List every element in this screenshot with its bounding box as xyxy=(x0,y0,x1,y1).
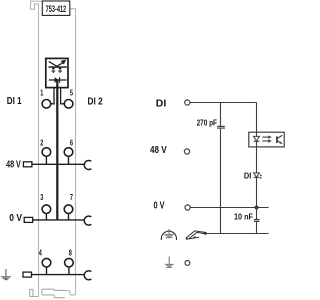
svg-text:4: 4 xyxy=(39,249,42,258)
48V terminal unconnected xyxy=(184,149,189,154)
earth symbol left xyxy=(1,269,11,280)
optocoupler light arrows xyxy=(262,137,268,141)
svg-text:DI 2: DI 2 xyxy=(88,96,104,107)
wire LED to 0V node xyxy=(256,177,258,207)
label box 753-412 xyxy=(42,1,70,15)
terminal 1 xyxy=(42,100,51,109)
module outline DIN-rail recess profile xyxy=(42,289,66,298)
filter branch wire lower xyxy=(220,129,222,234)
pin number 5 xyxy=(70,89,73,98)
DI input wire xyxy=(190,102,257,104)
svg-text:3: 3 xyxy=(40,193,43,202)
earth rail wire xyxy=(32,274,85,276)
svg-text:753-412: 753-412 xyxy=(46,4,67,15)
DI input terminal xyxy=(185,100,190,105)
label DI 1 xyxy=(7,96,22,107)
svg-text:5: 5 xyxy=(70,89,73,98)
svg-text:DI 1: DI 1 xyxy=(7,96,22,107)
wire 10nF to rail-earth line xyxy=(256,222,258,234)
capacitive earth arrow xyxy=(165,229,173,238)
label DI at LED xyxy=(244,170,251,180)
optocoupler LED xyxy=(254,132,260,147)
wire optocoupler to DI LED xyxy=(256,147,258,173)
functional earth arrow bottom xyxy=(166,257,173,268)
terminal 8 xyxy=(65,258,74,274)
filter branch wire upper xyxy=(220,103,222,127)
diode D1 inside box xyxy=(49,79,67,81)
svg-text:7: 7 xyxy=(70,193,73,202)
label 270 pF xyxy=(197,118,217,128)
48V jumper contact hook xyxy=(84,160,91,169)
0V jumper contact hook xyxy=(84,216,91,225)
svg-text:DI: DI xyxy=(244,170,251,180)
svg-text:DI: DI xyxy=(156,98,167,109)
status LED left (DI1) xyxy=(52,68,56,73)
0V field clamp square xyxy=(24,217,33,222)
label 48 V left xyxy=(6,160,21,171)
capacitor 270 pF xyxy=(217,126,225,128)
optocoupler input wire xyxy=(256,103,258,137)
module outline right edge xyxy=(66,9,76,295)
label 0 V left xyxy=(9,213,22,224)
capacitive earth symbol arc xyxy=(161,231,176,240)
0V rail wire xyxy=(33,219,85,221)
common return wire from box to 0V rail xyxy=(56,80,58,220)
label DI right top xyxy=(156,98,167,109)
label 10 nF xyxy=(234,212,253,222)
48V rail wire xyxy=(32,163,85,165)
svg-text:1: 1 xyxy=(40,89,43,98)
module outline left notch and left edge xyxy=(31,1,43,296)
terminal 7 xyxy=(64,205,73,220)
0V terminal xyxy=(185,205,190,210)
pin number 8 xyxy=(69,249,72,258)
svg-text:0 V: 0 V xyxy=(154,200,165,211)
optocoupler phototransistor xyxy=(277,135,282,143)
status LEDs inside box: anode rail xyxy=(48,66,67,68)
LED emission arrows small xyxy=(260,174,262,179)
pin number 2 xyxy=(40,138,43,147)
terminal 4 xyxy=(42,258,51,274)
module outline bottom-left foot tab xyxy=(30,289,39,296)
pin number 7 xyxy=(70,193,73,202)
terminal 2 xyxy=(42,148,51,165)
capacitor 10 nF xyxy=(254,220,260,222)
svg-text:270 pF: 270 pF xyxy=(197,118,217,128)
LED/diode function box U1 xyxy=(46,58,68,87)
pin number 3 xyxy=(40,193,43,202)
48V field clamp square xyxy=(23,162,32,167)
wire from box to terminal 1 xyxy=(51,88,54,104)
svg-text:0 V: 0 V xyxy=(9,213,22,224)
earth jumper contact hook xyxy=(84,271,91,280)
terminal 3 xyxy=(42,205,51,220)
0V wire xyxy=(190,207,268,209)
svg-text:2: 2 xyxy=(40,138,43,147)
pin number 1 xyxy=(40,89,43,98)
label 48 V right xyxy=(150,145,167,156)
svg-text:8: 8 xyxy=(69,249,72,258)
DIN rail symbol xyxy=(186,231,206,239)
junction node xyxy=(255,206,259,210)
label DI 2 xyxy=(88,96,104,107)
earth terminal xyxy=(185,261,190,266)
rail-earth bottom wire xyxy=(206,233,269,235)
svg-text:48 V: 48 V xyxy=(6,160,21,171)
svg-text:6: 6 xyxy=(70,138,73,147)
status LED right (DI2) xyxy=(58,68,62,73)
wire from box to terminal 5 xyxy=(61,88,65,104)
LED DI indicator xyxy=(254,173,260,178)
earth field clamp square xyxy=(23,272,32,277)
pin number 6 xyxy=(70,138,73,147)
pin number 4 xyxy=(39,249,42,258)
terminal 6 xyxy=(64,148,73,165)
terminal 5 xyxy=(64,100,73,109)
optocoupler U2 box xyxy=(249,132,284,147)
svg-text:10 nF: 10 nF xyxy=(234,212,253,222)
label 0 V right xyxy=(154,200,165,211)
indicator V-arrow over LEDs xyxy=(49,62,64,67)
svg-text:48 V: 48 V xyxy=(150,145,167,156)
wire node to 10nF xyxy=(256,208,258,220)
